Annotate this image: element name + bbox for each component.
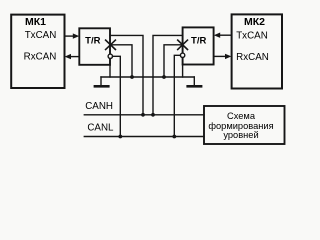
svg-text:МК1: МК1 <box>25 16 46 28</box>
ground symbol right <box>193 77 195 85</box>
MCU box MK1 <box>11 15 64 88</box>
twisted-pair cross X at U1 <box>106 40 116 49</box>
wire U1 CANL tap (inner L) <box>113 56 121 136</box>
junction dot U2 CANH <box>151 113 155 117</box>
arrowhead into U1 <box>73 33 79 38</box>
bubble at U2 CANL pin <box>180 53 184 57</box>
level-shaping circuit label <box>208 111 273 140</box>
ground symbol left <box>100 77 102 85</box>
svg-text:TxCAN: TxCAN <box>25 30 57 41</box>
wire U1 ground tap (middle L) <box>110 45 132 77</box>
junction dot U2 ground/rail <box>162 75 166 79</box>
svg-text:МК2: МК2 <box>244 16 265 28</box>
transceiver T/R U2 (right) <box>183 27 214 64</box>
junction dot U1 CANH <box>141 113 145 117</box>
svg-text:TxCAN: TxCAN <box>236 31 268 42</box>
junction dot U1 ground/rail <box>130 75 134 79</box>
svg-text:T/R: T/R <box>85 36 100 47</box>
svg-text:Схема: Схема <box>227 111 256 121</box>
transceiver T/R U1 (left) <box>79 28 110 65</box>
svg-text:CANH: CANH <box>85 101 113 112</box>
bus wire CANH <box>84 114 204 116</box>
svg-text:T/R: T/R <box>191 35 206 46</box>
arrowhead into MK1 <box>65 54 71 59</box>
bus wire CANL <box>84 136 204 138</box>
arrowhead into MK2 <box>225 54 231 59</box>
svg-text:RxCAN: RxCAN <box>236 52 269 63</box>
junction dot U1 CANL <box>118 135 122 139</box>
svg-text:CANL: CANL <box>87 123 114 134</box>
svg-text:RxCAN: RxCAN <box>24 52 57 63</box>
ground rail wire <box>101 76 194 78</box>
wire U2 box to ground rail <box>182 65 184 78</box>
level-shaping circuit box <box>204 106 285 144</box>
wire U2 ground tap (middle L) <box>164 45 183 77</box>
wire U2 CANL tap (inner L) <box>174 55 180 136</box>
twisted-pair cross X at U2 <box>178 40 188 49</box>
wire U1 box to ground rail <box>109 65 111 77</box>
MCU box MK2 <box>232 14 282 88</box>
wire MK1 TxCAN to U1 <box>65 35 75 37</box>
wire MK2 TxCAN to U2 <box>219 34 232 36</box>
junction dot U2 CANL <box>172 135 176 139</box>
arrowhead into U2 <box>214 33 220 38</box>
wire U1 to MK1 RxCAN <box>70 56 80 58</box>
svg-text:уровней: уровней <box>223 130 258 140</box>
bubble at U1 CANL pin <box>108 54 112 58</box>
wire U1 CANH tap (outer L) <box>110 35 143 114</box>
wire U2 CANH tap (outer L) <box>153 35 183 114</box>
wire U2 to MK2 RxCAN <box>214 55 227 57</box>
